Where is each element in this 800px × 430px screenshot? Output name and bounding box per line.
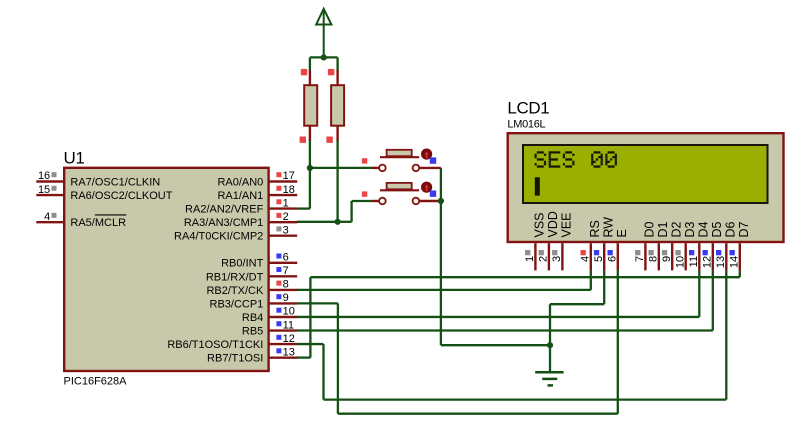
- pin 11 RB5: [269, 329, 298, 331]
- wire RB7 to D7 top run: [310, 276, 739, 278]
- pin 8 RB2/TX/CK: [269, 289, 298, 291]
- pin 2 RA3/AN3/CMP1: [269, 221, 298, 223]
- svg-text:16: 16: [38, 170, 50, 182]
- wire up to button2: [350, 201, 352, 222]
- svg-text:LCD1: LCD1: [507, 98, 549, 117]
- svg-text:18: 18: [283, 184, 295, 196]
- svg-text:7: 7: [283, 265, 289, 277]
- svg-text:RB5: RB5: [242, 325, 263, 337]
- pin 9 RB3/CCP1: [269, 302, 298, 304]
- LCD pin 12 D5: [712, 243, 714, 270]
- svg-text:VEE: VEE: [560, 212, 574, 237]
- svg-text:D2: D2: [670, 221, 684, 237]
- svg-text:RW: RW: [602, 217, 616, 238]
- svg-text:RB6/T1OSO/T1CKI: RB6/T1OSO/T1CKI: [167, 339, 263, 351]
- svg-text:RA2/AN2/VREF: RA2/AN2/VREF: [185, 204, 264, 216]
- svg-text:RA5/MCLR: RA5/MCLR: [70, 217, 126, 229]
- wire R1 bottom to node A: [309, 140, 311, 168]
- pin 13 RB7/T1OSI: [269, 356, 298, 358]
- wire RB2 to RS: [297, 289, 591, 291]
- svg-text:2: 2: [538, 256, 550, 262]
- LCD1 LM016L body: [508, 133, 784, 242]
- svg-text:D4: D4: [697, 221, 711, 237]
- svg-text:6: 6: [283, 252, 289, 264]
- svg-text:12: 12: [702, 256, 714, 268]
- wire D7 riser: [739, 270, 741, 277]
- wire node B to pin RA3/AN3/CMP1: [297, 221, 338, 223]
- wire node B right: [338, 221, 352, 223]
- svg-text:LM016L: LM016L: [507, 118, 545, 130]
- svg-text:1: 1: [524, 256, 536, 262]
- wire RB3 right: [297, 302, 338, 304]
- svg-text:U1: U1: [64, 149, 85, 168]
- junction ground node: [547, 342, 553, 348]
- svg-text:10: 10: [283, 306, 295, 318]
- LCD pin 9 D2: [671, 243, 673, 270]
- push button SW2: [371, 200, 379, 202]
- svg-text:RA0/AN0: RA0/AN0: [217, 176, 263, 188]
- LCD pin 8 D1: [658, 243, 660, 270]
- LCD pin 2 VDD: [548, 243, 550, 270]
- svg-text:VDD: VDD: [546, 211, 560, 237]
- wire D4 riser: [698, 270, 700, 317]
- wire RS riser: [590, 270, 592, 289]
- svg-text:D3: D3: [683, 221, 697, 237]
- LCD pin 10 D3: [685, 243, 687, 270]
- svg-text:6: 6: [607, 256, 619, 262]
- svg-text:5: 5: [593, 256, 605, 262]
- LCD pin 14 D7: [739, 243, 741, 270]
- wire RW down to ground node: [549, 304, 551, 345]
- wire RB6 down: [322, 344, 324, 400]
- wire D5 riser: [712, 270, 714, 330]
- wire E riser: [617, 270, 619, 413]
- node A junction: [307, 165, 313, 171]
- svg-text:RB4: RB4: [242, 312, 263, 324]
- pin 4 RA5/MCLR: [36, 221, 63, 223]
- wire node A down to RA2: [309, 168, 311, 209]
- svg-text:15: 15: [38, 184, 50, 196]
- wire D6 riser: [725, 270, 727, 399]
- svg-text:9: 9: [661, 256, 673, 262]
- LCD cursor: [535, 177, 540, 195]
- svg-text:D1: D1: [656, 221, 670, 237]
- svg-text:8: 8: [283, 279, 289, 291]
- wire RB3 to E bottom run: [338, 413, 618, 415]
- pin 7 RB1/RX/DT: [269, 275, 298, 277]
- pin 17 RA0/AN0: [269, 180, 298, 182]
- svg-text:4: 4: [580, 256, 592, 262]
- LCD pin 5 RW: [603, 243, 605, 270]
- LCD pin 13 D6: [725, 243, 727, 270]
- svg-text:RA6/OSC2/CLKOUT: RA6/OSC2/CLKOUT: [70, 190, 172, 202]
- svg-text:9: 9: [283, 292, 289, 304]
- svg-text:8: 8: [648, 256, 660, 262]
- svg-text:PIC16F628A: PIC16F628A: [64, 375, 128, 387]
- wire buttons common down: [440, 168, 442, 345]
- svg-text:10: 10: [675, 256, 687, 268]
- svg-text:RB2/TX/CK: RB2/TX/CK: [206, 285, 264, 297]
- IC U1 PIC16F628A: [64, 168, 268, 371]
- svg-text:VSS: VSS: [533, 212, 547, 237]
- pin 16 RA7/OSC1/CLKIN: [36, 180, 63, 182]
- svg-text:11: 11: [688, 256, 700, 267]
- junction button2 right: [438, 198, 444, 204]
- pin 15 RA6/OSC2/CLKOUT: [36, 194, 63, 196]
- wire RB4 to D4: [297, 316, 700, 318]
- LCD pin 7 D0: [644, 243, 646, 270]
- wire RB6 right: [297, 343, 324, 345]
- LCD text SES 00: [535, 151, 617, 167]
- wire RB3 down: [337, 303, 339, 413]
- pin 12 RB6/T1OSO/T1CKI: [269, 343, 298, 345]
- node B junction: [335, 219, 341, 225]
- svg-text:D6: D6: [724, 221, 738, 237]
- LCD pin 1 VSS: [534, 243, 536, 270]
- wire power stem: [323, 10, 325, 58]
- svg-text:3: 3: [283, 224, 289, 236]
- LCD pin 6 E: [617, 243, 619, 270]
- pin 6 RB0/INT: [269, 262, 298, 264]
- resistor R2: [336, 57, 338, 71]
- pin 3 RA4/T0CKI/CMP2: [269, 234, 298, 236]
- svg-text:D7: D7: [737, 221, 751, 237]
- wire RW horizontal: [550, 303, 604, 305]
- svg-text:2: 2: [283, 211, 289, 223]
- svg-text:RA7/OSC1/CLKIN: RA7/OSC1/CLKIN: [70, 176, 160, 188]
- svg-text:11: 11: [283, 319, 294, 331]
- svg-text:1: 1: [283, 197, 289, 209]
- pin 1 RA2/AN2/VREF: [269, 207, 298, 209]
- ground: [549, 345, 551, 372]
- wire RB7 up: [309, 277, 311, 357]
- svg-text:RS: RS: [588, 220, 602, 237]
- svg-text:D0: D0: [643, 221, 657, 237]
- svg-text:4: 4: [44, 211, 50, 223]
- svg-text:D5: D5: [710, 221, 724, 237]
- junction power rail: [321, 54, 327, 60]
- wire to button2 left: [352, 200, 372, 202]
- wire RB5 to D5: [297, 329, 713, 331]
- svg-text:3: 3: [551, 256, 563, 262]
- power symbol +V arrow: [316, 9, 331, 25]
- LCD pin 11 D4: [698, 243, 700, 270]
- wire to pin RA2/AN2/VREF: [297, 207, 310, 209]
- LCD screen: [523, 145, 768, 203]
- wire to ground junction: [441, 344, 550, 346]
- pin 18 RA1/AN1: [269, 194, 298, 196]
- svg-text:13: 13: [283, 346, 295, 358]
- resistor R1: [309, 57, 311, 71]
- svg-text:RB7/T1OSI: RB7/T1OSI: [207, 353, 263, 365]
- svg-text:E: E: [615, 229, 629, 237]
- svg-text:7: 7: [634, 256, 646, 262]
- svg-text:RA3/AN3/CMP1: RA3/AN3/CMP1: [184, 217, 263, 229]
- wire node A to button1: [310, 167, 372, 169]
- pin 10 RB4: [269, 316, 298, 318]
- wire power rail: [310, 56, 338, 58]
- LCD pin 3 VEE: [561, 243, 563, 270]
- svg-text:12: 12: [283, 333, 295, 345]
- svg-text:RB1/RX/DT: RB1/RX/DT: [206, 271, 264, 283]
- wire up to LCD RW pin: [603, 270, 605, 304]
- push button SW1: [371, 167, 379, 169]
- wire R2 bottom to node B: [336, 140, 338, 222]
- svg-text:17: 17: [283, 170, 295, 182]
- svg-text:RA1/AN1: RA1/AN1: [217, 190, 263, 202]
- svg-text:13: 13: [715, 256, 727, 268]
- wire RB6 to D6 bottom run: [324, 398, 727, 400]
- svg-text:14: 14: [729, 256, 741, 268]
- svg-text:RB0/INT: RB0/INT: [221, 258, 263, 270]
- svg-text:RA4/T0CKI/CMP2: RA4/T0CKI/CMP2: [174, 231, 263, 243]
- LCD pin 4 RS: [590, 243, 592, 270]
- svg-text:RB3/CCP1: RB3/CCP1: [210, 298, 264, 310]
- wire RB7 right: [297, 356, 311, 358]
